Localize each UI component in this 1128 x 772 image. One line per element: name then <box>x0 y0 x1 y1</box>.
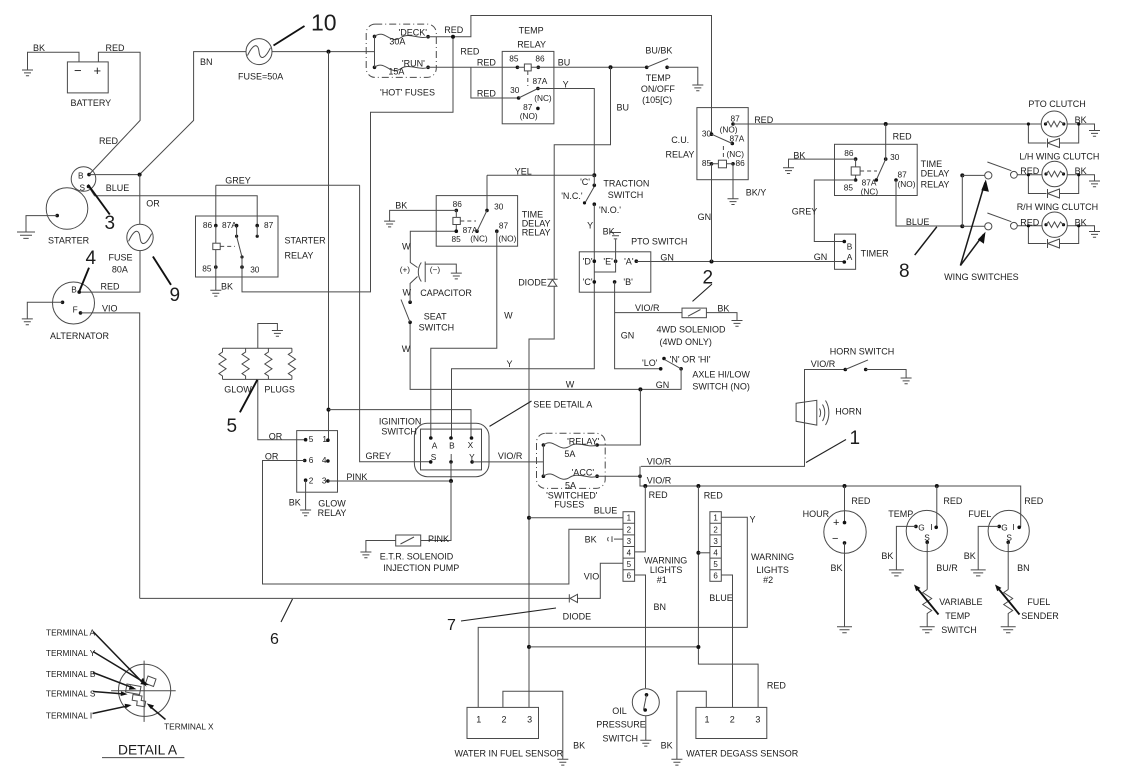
svg-text:W: W <box>504 311 513 321</box>
svg-text:1: 1 <box>713 514 718 523</box>
svg-text:BK: BK <box>1075 115 1087 125</box>
svg-text:HOUR: HOUR <box>803 509 830 519</box>
svg-text:+: + <box>94 63 102 78</box>
svg-text:SEE DETAIL A: SEE DETAIL A <box>533 400 592 410</box>
svg-text:RED: RED <box>851 496 871 506</box>
svg-text:F: F <box>73 305 78 315</box>
svg-text:4: 4 <box>322 455 327 465</box>
svg-text:GREY: GREY <box>366 451 392 461</box>
svg-text:6: 6 <box>627 572 632 581</box>
svg-text:YEL: YEL <box>515 167 532 177</box>
svg-text:VIO/R: VIO/R <box>647 457 672 467</box>
svg-text:1: 1 <box>850 428 861 449</box>
svg-text:'LO': 'LO' <box>642 358 658 368</box>
svg-text:−: − <box>74 63 82 78</box>
svg-text:BN: BN <box>1017 563 1030 573</box>
svg-text:#2: #2 <box>763 575 773 585</box>
svg-text:86: 86 <box>844 148 854 158</box>
svg-text:Y: Y <box>587 221 593 231</box>
svg-text:SWITCH: SWITCH <box>941 625 977 635</box>
svg-text:RELAY: RELAY <box>517 40 546 50</box>
svg-text:(NC): (NC) <box>470 233 488 243</box>
svg-text:ON/OFF: ON/OFF <box>641 84 675 94</box>
svg-text:BK: BK <box>1075 218 1087 228</box>
svg-text:VIO/R: VIO/R <box>635 303 660 313</box>
svg-text:OR: OR <box>269 432 283 442</box>
svg-text:1: 1 <box>627 514 632 523</box>
svg-text:'C': 'C' <box>583 277 593 287</box>
svg-text:VIO/R: VIO/R <box>811 359 836 369</box>
svg-text:(NO): (NO) <box>520 111 538 121</box>
svg-text:SENDER: SENDER <box>1021 611 1059 621</box>
svg-text:PRESSURE: PRESSURE <box>596 720 646 730</box>
svg-text:GN: GN <box>698 212 712 222</box>
svg-text:85: 85 <box>844 183 854 193</box>
svg-text:BK: BK <box>717 304 729 314</box>
svg-text:'HOT' FUSES: 'HOT' FUSES <box>380 88 435 98</box>
svg-text:2: 2 <box>502 715 507 725</box>
svg-text:LIGHTS: LIGHTS <box>650 565 683 575</box>
svg-text:87A: 87A <box>533 76 548 86</box>
svg-text:X: X <box>468 440 474 450</box>
svg-text:A: A <box>847 252 853 262</box>
svg-text:'ACC': 'ACC' <box>572 468 595 478</box>
svg-text:+: + <box>833 517 839 529</box>
svg-text:'RUN': 'RUN' <box>402 59 425 69</box>
svg-text:(−): (−) <box>430 265 441 275</box>
svg-text:TERMINAL X: TERMINAL X <box>164 721 214 731</box>
svg-text:OIL: OIL <box>612 706 627 716</box>
svg-text:BK: BK <box>1075 166 1087 176</box>
svg-text:RED: RED <box>106 43 126 53</box>
svg-text:5: 5 <box>713 560 718 569</box>
svg-text:GREY: GREY <box>225 176 251 186</box>
svg-text:BU: BU <box>617 103 630 113</box>
svg-text:85: 85 <box>702 158 712 168</box>
svg-text:30: 30 <box>494 202 504 212</box>
svg-text:DIODE: DIODE <box>563 612 592 622</box>
svg-text:'N' OR 'HI': 'N' OR 'HI' <box>670 355 711 365</box>
svg-text:87A: 87A <box>730 134 745 144</box>
svg-text:5: 5 <box>309 434 314 444</box>
svg-text:W: W <box>402 344 411 354</box>
svg-text:TRACTION: TRACTION <box>603 179 649 189</box>
svg-text:BLUE: BLUE <box>709 593 733 603</box>
svg-text:4: 4 <box>86 248 97 269</box>
svg-text:86: 86 <box>535 54 545 64</box>
svg-text:RED: RED <box>704 491 724 501</box>
svg-text:SWITCH: SWITCH <box>603 734 639 744</box>
svg-text:BN: BN <box>200 57 213 67</box>
svg-text:2: 2 <box>703 268 714 289</box>
svg-text:PTO SWITCH: PTO SWITCH <box>631 237 687 247</box>
svg-text:RED: RED <box>754 115 774 125</box>
svg-text:RED: RED <box>460 47 480 57</box>
svg-text:FUSES: FUSES <box>554 500 584 510</box>
svg-text:B: B <box>449 441 455 451</box>
svg-text:2: 2 <box>309 475 314 485</box>
svg-text:S: S <box>924 533 930 543</box>
svg-text:6: 6 <box>309 455 314 465</box>
svg-text:9: 9 <box>170 285 181 306</box>
svg-text:86: 86 <box>736 158 746 168</box>
svg-text:BK: BK <box>831 563 843 573</box>
svg-text:BK: BK <box>395 201 407 211</box>
svg-text:(NO): (NO) <box>898 179 916 189</box>
svg-text:87: 87 <box>731 114 741 124</box>
svg-text:SWITCH (NO): SWITCH (NO) <box>692 381 750 391</box>
svg-text:RED: RED <box>444 25 464 35</box>
svg-text:BK: BK <box>221 282 233 292</box>
svg-text:RELAY: RELAY <box>522 228 551 238</box>
svg-text:Y: Y <box>507 359 513 369</box>
svg-text:TERMINAL S: TERMINAL S <box>46 688 96 698</box>
svg-text:RELAY: RELAY <box>921 180 950 190</box>
svg-text:FUEL: FUEL <box>1027 597 1050 607</box>
svg-text:−: − <box>832 533 838 545</box>
svg-text:STARTER: STARTER <box>48 236 90 246</box>
svg-text:5A: 5A <box>565 481 576 491</box>
svg-text:WARNING: WARNING <box>751 552 794 562</box>
svg-text:TERMINAL A: TERMINAL A <box>46 628 95 638</box>
svg-text:FUSE=50A: FUSE=50A <box>238 72 283 82</box>
svg-text:RED: RED <box>893 132 913 142</box>
svg-text:RELAY: RELAY <box>318 508 347 518</box>
svg-text:GN: GN <box>814 252 828 262</box>
svg-text:B: B <box>78 171 84 181</box>
svg-text:HORN SWITCH: HORN SWITCH <box>830 347 895 357</box>
svg-text:'RELAY': 'RELAY' <box>567 436 600 446</box>
svg-text:6: 6 <box>713 572 718 581</box>
svg-text:HORN: HORN <box>835 407 862 417</box>
svg-text:30A: 30A <box>389 37 405 47</box>
svg-text:BLUE: BLUE <box>594 506 618 516</box>
svg-text:RED: RED <box>1024 496 1044 506</box>
svg-text:'D': 'D' <box>583 257 593 267</box>
svg-text:3: 3 <box>627 537 632 546</box>
svg-text:CAPACITOR: CAPACITOR <box>420 288 472 298</box>
svg-text:VIO: VIO <box>584 572 600 582</box>
svg-text:BK: BK <box>585 535 597 545</box>
svg-text:BK: BK <box>793 151 805 161</box>
svg-text:ALTERNATOR: ALTERNATOR <box>50 331 110 341</box>
svg-text:R/H WING CLUTCH: R/H WING CLUTCH <box>1017 202 1098 212</box>
svg-text:BU: BU <box>558 58 571 68</box>
svg-text:GN: GN <box>621 331 635 341</box>
svg-text:BK: BK <box>964 551 976 561</box>
svg-text:E.T.R. SOLENOID: E.T.R. SOLENOID <box>380 552 454 562</box>
svg-text:OR: OR <box>265 451 279 461</box>
svg-text:PLUGS: PLUGS <box>264 384 295 394</box>
svg-text:W: W <box>566 380 575 390</box>
svg-text:(NC): (NC) <box>534 93 552 103</box>
svg-text:10: 10 <box>311 10 337 36</box>
svg-text:TEMP: TEMP <box>888 509 913 519</box>
svg-text:87A: 87A <box>222 220 237 230</box>
svg-text:GN: GN <box>660 253 674 263</box>
svg-text:(NO): (NO) <box>498 233 516 243</box>
svg-text:(NC): (NC) <box>861 187 879 197</box>
svg-text:85: 85 <box>202 264 212 274</box>
svg-text:SWITCH: SWITCH <box>608 190 644 200</box>
svg-text:WING SWITCHES: WING SWITCHES <box>944 272 1019 282</box>
svg-text:VIO: VIO <box>102 304 118 314</box>
svg-text:5A: 5A <box>564 449 575 459</box>
svg-text:BK: BK <box>573 741 585 751</box>
svg-text:BK: BK <box>661 741 673 751</box>
svg-text:RED: RED <box>767 680 787 690</box>
svg-text:1: 1 <box>476 715 481 725</box>
svg-text:SWITCH: SWITCH <box>381 427 417 437</box>
svg-text:IGINITION: IGINITION <box>379 417 422 427</box>
svg-text:SEAT: SEAT <box>424 312 447 322</box>
svg-text:'C': 'C' <box>580 177 590 187</box>
svg-text:85: 85 <box>509 54 519 64</box>
svg-text:4WD SOLENIOD: 4WD SOLENIOD <box>657 325 727 335</box>
svg-text:7: 7 <box>447 617 456 634</box>
svg-text:VARIABLE: VARIABLE <box>939 597 982 607</box>
svg-text:I: I <box>450 452 452 462</box>
svg-text:G: G <box>918 523 924 533</box>
svg-text:Y: Y <box>750 515 756 525</box>
svg-text:BU/BK: BU/BK <box>645 46 672 56</box>
svg-text:RELAY: RELAY <box>666 150 695 160</box>
svg-text:W: W <box>403 288 412 298</box>
svg-text:TIMER: TIMER <box>861 249 889 259</box>
svg-text:BK: BK <box>881 551 893 561</box>
svg-text:BU/R: BU/R <box>936 563 958 573</box>
svg-text:WATER DEGASS SENSOR: WATER DEGASS SENSOR <box>686 749 799 759</box>
svg-text:8: 8 <box>899 261 910 282</box>
svg-text:Y: Y <box>563 80 569 90</box>
svg-text:RED: RED <box>477 89 497 99</box>
svg-text:S: S <box>1006 533 1012 543</box>
svg-text:DIODE: DIODE <box>518 278 547 288</box>
svg-text:I: I <box>930 522 932 532</box>
svg-text:STARTER: STARTER <box>285 236 327 246</box>
svg-text:BK/Y: BK/Y <box>746 188 767 198</box>
svg-text:INJECTION PUMP: INJECTION PUMP <box>383 563 459 573</box>
svg-text:15A: 15A <box>388 67 404 77</box>
svg-text:TEMP: TEMP <box>519 26 544 36</box>
svg-text:BLUE: BLUE <box>106 183 130 193</box>
svg-text:6: 6 <box>270 631 279 648</box>
svg-text:86: 86 <box>203 220 213 230</box>
svg-text:'N.C.': 'N.C.' <box>561 191 583 201</box>
svg-text:GN: GN <box>656 380 670 390</box>
svg-text:PINK: PINK <box>428 534 449 544</box>
svg-text:'B': 'B' <box>623 277 633 287</box>
svg-text:GLOW: GLOW <box>224 384 252 394</box>
svg-text:87: 87 <box>898 170 908 180</box>
svg-text:PINK: PINK <box>346 472 367 482</box>
svg-text:80A: 80A <box>112 265 128 275</box>
svg-text:BK: BK <box>33 43 45 53</box>
svg-text:RED: RED <box>1020 166 1040 176</box>
svg-text:TERMINAL B: TERMINAL B <box>46 669 96 679</box>
svg-text:(105[C): (105[C) <box>642 95 672 105</box>
svg-text:Y: Y <box>469 452 475 462</box>
svg-text:87: 87 <box>264 220 274 230</box>
svg-text:S: S <box>431 452 437 462</box>
svg-text:C.U.: C.U. <box>671 135 689 145</box>
svg-text:30: 30 <box>510 85 520 95</box>
svg-text:4: 4 <box>627 549 632 558</box>
svg-text:L/H WING CLUTCH: L/H WING CLUTCH <box>1019 152 1099 162</box>
svg-text:3: 3 <box>322 475 327 485</box>
svg-text:RED: RED <box>101 282 121 292</box>
svg-text:30: 30 <box>250 265 260 275</box>
svg-text:SWITCH: SWITCH <box>419 323 455 333</box>
svg-text:85: 85 <box>452 234 462 244</box>
svg-text:I: I <box>1012 522 1014 532</box>
svg-text:2: 2 <box>627 525 632 534</box>
svg-text:30: 30 <box>702 129 712 139</box>
svg-text:30: 30 <box>890 152 900 162</box>
svg-text:86: 86 <box>453 199 463 209</box>
svg-text:BATTERY: BATTERY <box>71 98 112 108</box>
svg-text:DETAIL A: DETAIL A <box>118 743 178 758</box>
svg-text:2: 2 <box>713 525 718 534</box>
svg-text:2: 2 <box>730 715 735 725</box>
svg-text:5: 5 <box>627 560 632 569</box>
svg-text:RED: RED <box>477 58 497 68</box>
svg-text:3: 3 <box>527 715 532 725</box>
svg-text:'N.O.': 'N.O.' <box>599 205 621 215</box>
svg-text:TERMINAL I: TERMINAL I <box>46 710 92 720</box>
svg-text:G: G <box>1001 523 1007 533</box>
svg-text:A: A <box>432 441 438 451</box>
svg-text:VIO/R: VIO/R <box>647 476 672 486</box>
svg-text:TERMINAL Y: TERMINAL Y <box>46 648 96 658</box>
svg-text:BN: BN <box>654 602 667 612</box>
svg-text:RED: RED <box>1020 218 1040 228</box>
svg-text:BLUE: BLUE <box>906 217 930 227</box>
svg-text:GREY: GREY <box>792 207 818 217</box>
svg-text:TEMP: TEMP <box>646 73 671 83</box>
svg-text:OR: OR <box>146 199 160 209</box>
svg-text:1: 1 <box>705 715 710 725</box>
svg-text:3: 3 <box>755 715 760 725</box>
svg-text:'A': 'A' <box>624 257 634 267</box>
svg-text:RED: RED <box>649 490 669 500</box>
svg-text:LIGHTS: LIGHTS <box>756 565 789 575</box>
svg-text:VIO/R: VIO/R <box>498 451 523 461</box>
svg-text:RELAY: RELAY <box>285 251 314 261</box>
svg-text:RED: RED <box>99 136 119 146</box>
svg-text:S: S <box>80 183 86 193</box>
svg-text:FUEL: FUEL <box>968 509 991 519</box>
svg-text:3: 3 <box>105 213 116 234</box>
svg-text:TEMP: TEMP <box>945 611 970 621</box>
svg-text:87: 87 <box>499 221 509 231</box>
svg-text:(4WD ONLY): (4WD ONLY) <box>660 337 712 347</box>
svg-text:GLOW: GLOW <box>318 499 346 509</box>
svg-text:AXLE HI/LOW: AXLE HI/LOW <box>692 370 750 380</box>
svg-text:5: 5 <box>227 416 238 437</box>
svg-text:#1: #1 <box>657 575 667 585</box>
svg-text:3: 3 <box>713 537 718 546</box>
svg-text:BK: BK <box>289 498 301 508</box>
svg-text:FUSE: FUSE <box>109 253 133 263</box>
svg-text:B: B <box>71 285 77 295</box>
svg-text:RED: RED <box>943 496 963 506</box>
svg-text:(+): (+) <box>400 265 411 275</box>
svg-text:WARNING: WARNING <box>644 556 687 566</box>
svg-text:B: B <box>847 242 853 252</box>
svg-text:W: W <box>402 242 411 252</box>
svg-text:PTO CLUTCH: PTO CLUTCH <box>1028 99 1085 109</box>
svg-text:1: 1 <box>322 434 327 444</box>
svg-text:DELAY: DELAY <box>921 168 950 178</box>
svg-text:WATER IN FUEL SENSOR: WATER IN FUEL SENSOR <box>455 749 564 759</box>
svg-text:4: 4 <box>713 549 718 558</box>
svg-text:'E': 'E' <box>603 257 613 267</box>
svg-text:BK: BK <box>603 227 615 237</box>
